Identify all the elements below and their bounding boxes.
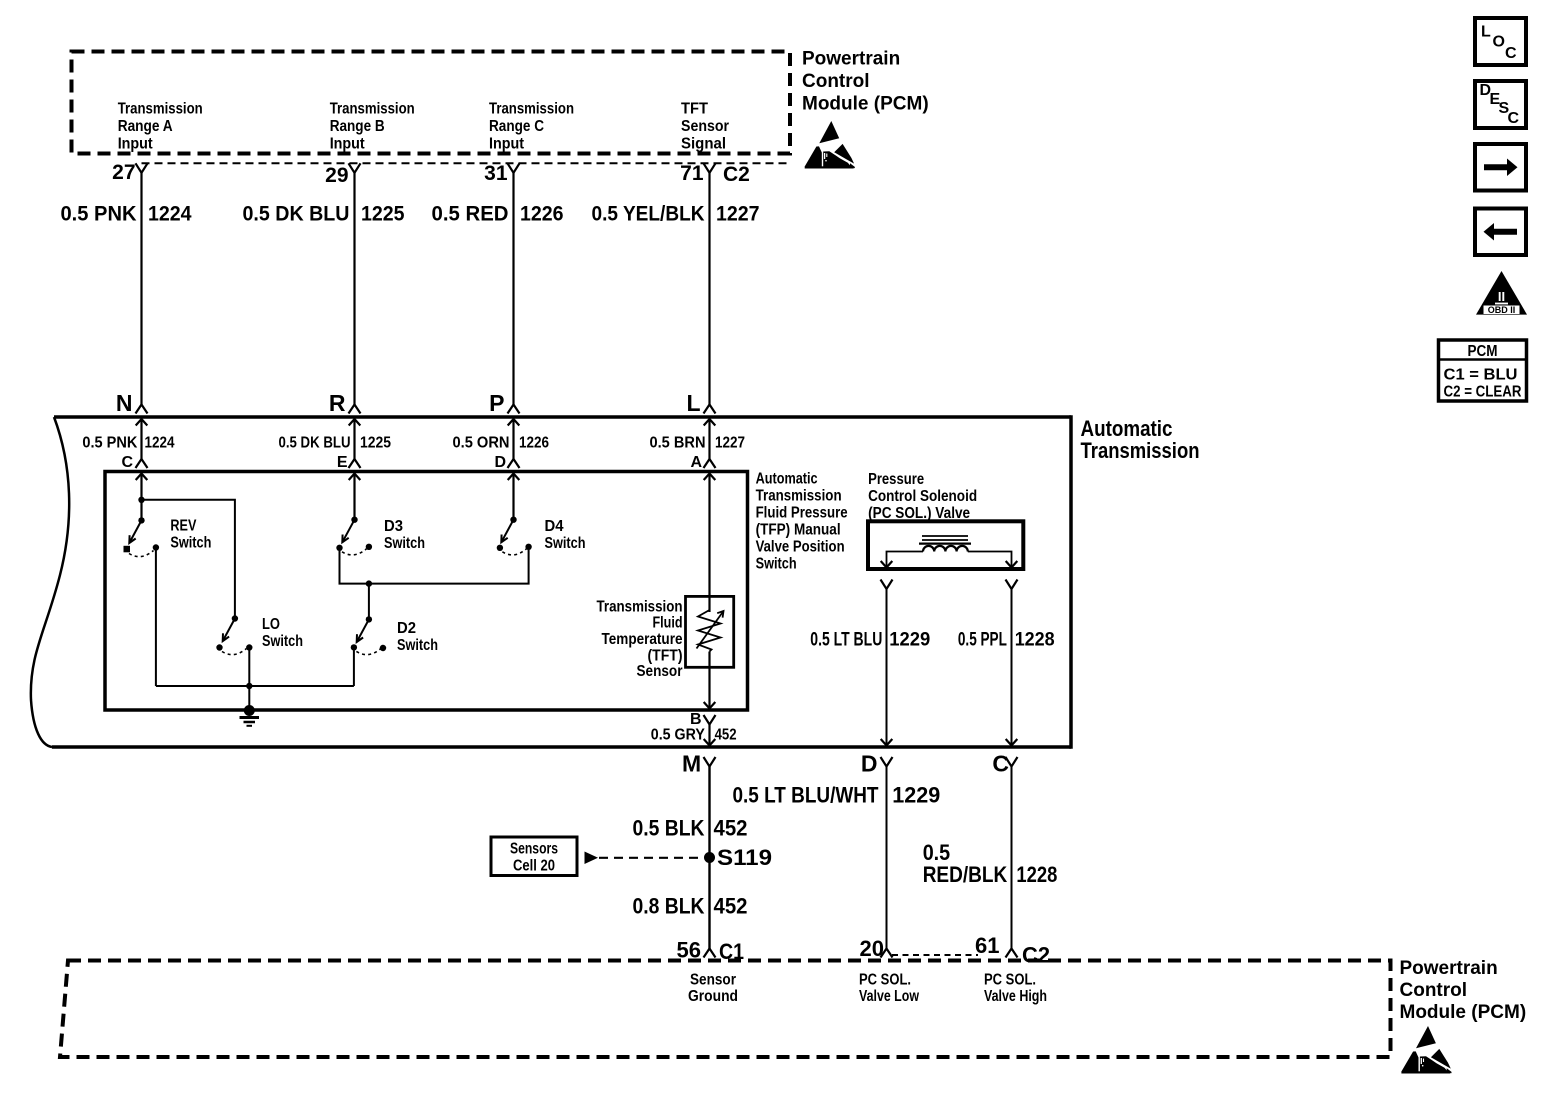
svg-text:71: 71 [680, 162, 704, 185]
arrow into box at L [704, 419, 716, 426]
wire label 0.5 RED 1226 [432, 203, 564, 226]
wire E down to D3 [353, 474, 355, 520]
svg-text:29: 29 [325, 164, 348, 187]
wire label 0.8 BLK 452 [633, 894, 748, 919]
svg-text:Powertrain: Powertrain [802, 49, 900, 70]
wire N to C [140, 419, 142, 459]
svg-text:Valve Position: Valve Position [756, 539, 845, 556]
svg-text:1229: 1229 [889, 629, 930, 650]
svg-text:Control Solenoid: Control Solenoid [868, 488, 977, 505]
svg-text:0.5 PNK: 0.5 PNK [61, 203, 137, 226]
svg-text:0.5 LT BLU/WHT: 0.5 LT BLU/WHT [733, 783, 879, 808]
svg-text:C2: C2 [1022, 943, 1050, 968]
icon left arrow button [1475, 209, 1526, 256]
svg-text:Range B: Range B [330, 118, 385, 135]
svg-text:0.5 BRN: 0.5 BRN [650, 435, 706, 452]
wire 1225 DK BLU pin29 to R [353, 173, 355, 405]
label Transmission Fluid Temperature (TFT) Sensor [597, 599, 683, 681]
svg-text:1225: 1225 [360, 435, 391, 452]
svg-text:Sensor: Sensor [690, 972, 736, 989]
svg-text:Transmission: Transmission [489, 101, 574, 118]
D2 switch [351, 616, 387, 654]
wire 1227 YEL/BLK pin71 to L [708, 173, 710, 405]
svg-text:C: C [121, 454, 133, 471]
svg-text:Powertrain: Powertrain [1400, 958, 1498, 979]
label Powertrain Control Module (PCM) bottom [1400, 958, 1527, 1023]
ground symbol [240, 705, 260, 726]
wire coil left lead [887, 552, 924, 567]
label Transmission Range B Input [330, 101, 415, 153]
reference arrow to S119 [585, 852, 599, 865]
svg-text:C1 = BLU: C1 = BLU [1444, 367, 1518, 384]
ESD sensitive device symbol top [805, 121, 855, 169]
svg-text:452: 452 [714, 894, 748, 919]
wire 1228 RED/BLK C to pin 61 [1011, 767, 1013, 949]
wire ground bus [156, 685, 354, 687]
svg-text:L: L [686, 390, 700, 416]
node ground junction [246, 683, 252, 689]
svg-text:PC SOL.: PC SOL. [859, 972, 911, 989]
wire TFT to terminal B [708, 652, 710, 709]
label TFP switch [756, 471, 848, 573]
arrow at TFP box bottom [704, 702, 716, 709]
wire C down to REV junction [140, 474, 142, 521]
label D4 Switch [545, 518, 586, 552]
connector half below PC SOL left [881, 580, 893, 590]
svg-text:Ground: Ground [688, 988, 738, 1005]
svg-text:Fluid: Fluid [653, 615, 683, 632]
wire P down to D4 [512, 474, 514, 520]
icon DESC button [1475, 81, 1526, 128]
svg-text:Switch: Switch [397, 637, 438, 654]
svg-text:Transmission: Transmission [1081, 438, 1200, 463]
svg-text:1226: 1226 [519, 435, 549, 452]
wire D3 output to link bus [340, 550, 529, 584]
svg-text:Valve Low: Valve Low [859, 988, 919, 1005]
wire link junction to D2 [368, 584, 370, 620]
svg-text:Temperature: Temperature [602, 631, 683, 648]
wire label 0.5 PNK 1224 inside [82, 435, 174, 452]
connector half at E [349, 459, 361, 468]
label REV Switch [170, 518, 211, 552]
svg-text:0.5 PPL: 0.5 PPL [958, 629, 1007, 650]
icon right arrow button [1475, 144, 1526, 191]
svg-text:1228: 1228 [1015, 629, 1055, 650]
arrow into TFP box at D [508, 474, 520, 481]
ESD sensitive device symbol bottom [1401, 1026, 1451, 1074]
svg-text:0.5 BLK: 0.5 BLK [633, 816, 705, 841]
svg-text:D2: D2 [397, 620, 416, 637]
svg-text:Range C: Range C [489, 118, 544, 135]
wire label 0.5 RED/BLK 1228 [923, 840, 1058, 887]
arrow into TFP box at C [136, 474, 148, 481]
svg-text:RED/BLK: RED/BLK [923, 862, 1008, 887]
wire coil right lead [968, 552, 1012, 567]
svg-text:Transmission: Transmission [597, 599, 683, 616]
svg-text:0.5 LT BLU: 0.5 LT BLU [810, 629, 882, 650]
arrow at PC SOL box bottom left [881, 561, 893, 568]
connector half at pin 27 [136, 163, 148, 173]
wire label 0.5 BLK 452 [633, 816, 748, 841]
svg-text:PC SOL.: PC SOL. [984, 972, 1036, 989]
wire 1224 PNK pin27 to N [140, 173, 142, 405]
dashed wire to S119 [599, 857, 704, 859]
svg-text:C2: C2 [723, 163, 750, 186]
svg-text:N: N [116, 390, 133, 416]
svg-text:II: II [1498, 289, 1505, 304]
svg-text:O: O [1493, 34, 1505, 51]
arrow at transmission box bottom D [881, 739, 893, 746]
PCM connector legend box [1439, 340, 1527, 401]
svg-text:LO: LO [262, 616, 280, 633]
svg-text:Module (PCM): Module (PCM) [802, 94, 929, 115]
wire A down to TFT sensor [708, 474, 710, 613]
svg-text:Sensors: Sensors [510, 841, 558, 858]
svg-text:(TFT): (TFT) [648, 647, 683, 664]
svg-text:TFT: TFT [681, 101, 708, 118]
arrow into box at R [349, 419, 361, 426]
label PC SOL. Valve Low [859, 972, 919, 1006]
splice dashed link pin20 to pin61 [892, 954, 978, 956]
wire label 0.5 YEL/BLK 1227 [592, 203, 760, 226]
svg-text:Pressure: Pressure [868, 471, 924, 488]
svg-text:0.5 PNK: 0.5 PNK [82, 435, 137, 452]
REV switch [124, 517, 160, 556]
svg-text:Input: Input [118, 136, 154, 153]
arrow at PC SOL box bottom right [1006, 561, 1018, 568]
svg-text:D: D [861, 751, 878, 777]
svg-text:Switch: Switch [262, 633, 303, 650]
TFP manual valve position switch box [105, 472, 748, 711]
connector half at pin 20 [881, 949, 893, 958]
wire L to A [708, 419, 710, 459]
svg-text:A: A [690, 454, 702, 471]
connector C2 face dashed line [142, 162, 791, 164]
svg-text:Cell 20: Cell 20 [513, 858, 555, 875]
wire label 0.5 DK BLU 1225 [243, 203, 405, 226]
label PC SOL. Valve High [984, 972, 1047, 1006]
label D2 Switch [397, 620, 438, 654]
svg-text:1227: 1227 [716, 203, 760, 226]
svg-text:452: 452 [714, 816, 748, 841]
connector half at N [136, 405, 148, 414]
LO switch [216, 615, 252, 654]
wire B to M [708, 725, 710, 746]
svg-text:1226: 1226 [520, 203, 564, 226]
connector half below PC SOL right [1006, 580, 1018, 590]
connector half at pin 71 [704, 163, 716, 173]
svg-text:(TFP) Manual: (TFP) Manual [756, 522, 841, 539]
label Powertrain Control Module (PCM) top [802, 49, 929, 115]
svg-text:Control: Control [1400, 980, 1468, 1001]
wire 1226 RED pin31 to P [512, 173, 514, 405]
svg-text:L: L [1481, 24, 1491, 41]
connector half at R [349, 405, 361, 414]
svg-text:Automatic: Automatic [756, 471, 818, 488]
svg-text:0.5 ORN: 0.5 ORN [453, 435, 510, 452]
svg-text:C: C [1505, 45, 1517, 62]
TFT thermistor element [697, 610, 724, 652]
svg-text:61: 61 [975, 933, 999, 958]
connector half at C [136, 459, 148, 468]
svg-text:Signal: Signal [681, 136, 726, 153]
svg-text:C: C [992, 751, 1009, 777]
svg-text:0.5 DK BLU: 0.5 DK BLU [279, 435, 351, 452]
wire junction to LO switch feed [142, 500, 235, 619]
node link junction [366, 580, 372, 586]
svg-text:27: 27 [112, 161, 135, 184]
wire 1228 PPL to C [1011, 589, 1013, 746]
svg-text:C: C [1508, 110, 1520, 127]
svg-text:0.5 YEL/BLK: 0.5 YEL/BLK [592, 203, 705, 226]
connector half at pin 29 [349, 163, 361, 173]
svg-text:1224: 1224 [145, 435, 175, 452]
svg-text:Sensor: Sensor [681, 118, 729, 135]
svg-text:1227: 1227 [715, 435, 745, 452]
svg-text:M: M [682, 751, 701, 777]
Pressure Control Solenoid valve box [868, 521, 1023, 569]
wire label 0.5 PPL 1228 [958, 629, 1055, 650]
svg-text:Switch: Switch [170, 535, 211, 552]
wire label 0.5 LT BLU 1229 [810, 629, 930, 650]
svg-text:0.5 DK BLU: 0.5 DK BLU [243, 203, 350, 226]
svg-text:Transmission: Transmission [756, 488, 842, 505]
icon OBD II triangle [1476, 271, 1527, 315]
svg-text:Switch: Switch [384, 535, 425, 552]
wire label 0.5 GRY 452 [651, 727, 737, 744]
connector half at C lower [1006, 757, 1018, 767]
connector half at pin 56 [704, 949, 716, 958]
connector half at A [704, 459, 716, 468]
arrow into box at N [136, 419, 148, 426]
D3 switch [336, 517, 372, 555]
arrow into TFP box at A [704, 474, 716, 481]
label Transmission Range A Input [118, 101, 203, 153]
PCM bottom dashed box [60, 961, 1391, 1058]
svg-text:1224: 1224 [148, 203, 192, 226]
arrow at transmission box bottom M [704, 739, 716, 746]
svg-text:452: 452 [715, 727, 737, 744]
svg-text:PCM: PCM [1468, 343, 1498, 360]
wire 1229 LT BLU to D [886, 589, 888, 746]
svg-text:R: R [329, 390, 346, 416]
label Sensor Ground [688, 972, 738, 1006]
svg-text:1229: 1229 [892, 783, 940, 808]
svg-text:REV: REV [170, 518, 196, 535]
wire D2 output down [353, 651, 355, 687]
Automatic Transmission box outline [31, 415, 1071, 748]
svg-text:Transmission: Transmission [330, 101, 415, 118]
Sensors Cell 20 reference box [491, 837, 577, 876]
svg-text:Control: Control [802, 71, 870, 92]
splice S119 [704, 852, 715, 863]
svg-text:D: D [494, 454, 506, 471]
svg-text:Input: Input [330, 136, 366, 153]
connector half at D lower [881, 757, 893, 767]
arrow into TFP box at E [349, 474, 361, 481]
wire 452 BLK M to pin 56 [708, 767, 710, 949]
connector half at pin 31 [508, 163, 520, 173]
svg-text:0.5 GRY: 0.5 GRY [651, 727, 705, 744]
svg-text:E: E [337, 454, 348, 471]
wire 1229 LT BLU/WHT D to pin 20 [886, 767, 888, 949]
svg-text:0.5 RED: 0.5 RED [432, 203, 509, 226]
svg-text:Switch: Switch [545, 535, 586, 552]
svg-text:(PC SOL.) Valve: (PC SOL.) Valve [868, 505, 970, 522]
wire label 0.5 BRN 1227 inside [650, 435, 746, 452]
svg-text:Module (PCM): Module (PCM) [1400, 1002, 1527, 1023]
svg-text:31: 31 [484, 162, 508, 185]
node junction REV to LO feed [138, 497, 144, 503]
svg-text:Range A: Range A [118, 118, 173, 135]
svg-text:1225: 1225 [361, 203, 405, 226]
wire label 0.5 PNK 1224 [61, 203, 192, 226]
svg-text:Transmission: Transmission [118, 101, 203, 118]
label D3 Switch [384, 518, 425, 552]
connector half at pin 61 [1006, 949, 1018, 958]
connector half at P [508, 405, 520, 414]
svg-text:Input: Input [489, 136, 525, 153]
wire label 0.5 DK BLU 1225 inside [279, 435, 392, 452]
wire label 0.5 LT BLU/WHT 1229 [733, 783, 941, 808]
svg-text:OBD II: OBD II [1488, 305, 1516, 315]
wire P to D [512, 419, 514, 459]
PCM top dashed box U1 [72, 52, 791, 154]
label Automatic Transmission [1081, 416, 1200, 463]
wire R to E [353, 419, 355, 459]
TFT sensor box [686, 596, 734, 667]
svg-text:1228: 1228 [1016, 862, 1057, 887]
svg-text:0.8 BLK: 0.8 BLK [633, 894, 705, 919]
svg-text:Fluid Pressure: Fluid Pressure [756, 505, 848, 522]
svg-text:Valve High: Valve High [984, 988, 1047, 1005]
svg-text:Switch: Switch [756, 556, 797, 573]
label Pressure Control Solenoid (PC SOL.) Valve [868, 471, 977, 522]
connector half at D [508, 459, 520, 468]
arrow into box at P [508, 419, 520, 426]
svg-text:D3: D3 [384, 518, 403, 535]
solenoid coil L1 [919, 536, 971, 552]
svg-text:Sensor: Sensor [637, 663, 683, 680]
wire label 0.5 ORN 1226 inside [453, 435, 550, 452]
connector half at M [704, 757, 716, 767]
svg-text:B: B [690, 711, 702, 728]
svg-text:C2 = CLEAR: C2 = CLEAR [1444, 384, 1522, 401]
wire LO output down [248, 651, 250, 709]
icon LOC button [1475, 18, 1526, 65]
D4 switch [497, 517, 532, 555]
connector half at B [704, 715, 716, 725]
connector half at L [704, 405, 716, 414]
label LO Switch [262, 616, 303, 650]
arrow at transmission box bottom C [1006, 739, 1018, 746]
svg-text:D4: D4 [545, 518, 564, 535]
label TFT Sensor Signal [681, 101, 729, 153]
wire REV output down [155, 551, 157, 687]
svg-text:S119: S119 [717, 845, 772, 870]
label Transmission Range C Input [489, 101, 574, 153]
svg-text:P: P [489, 390, 504, 416]
